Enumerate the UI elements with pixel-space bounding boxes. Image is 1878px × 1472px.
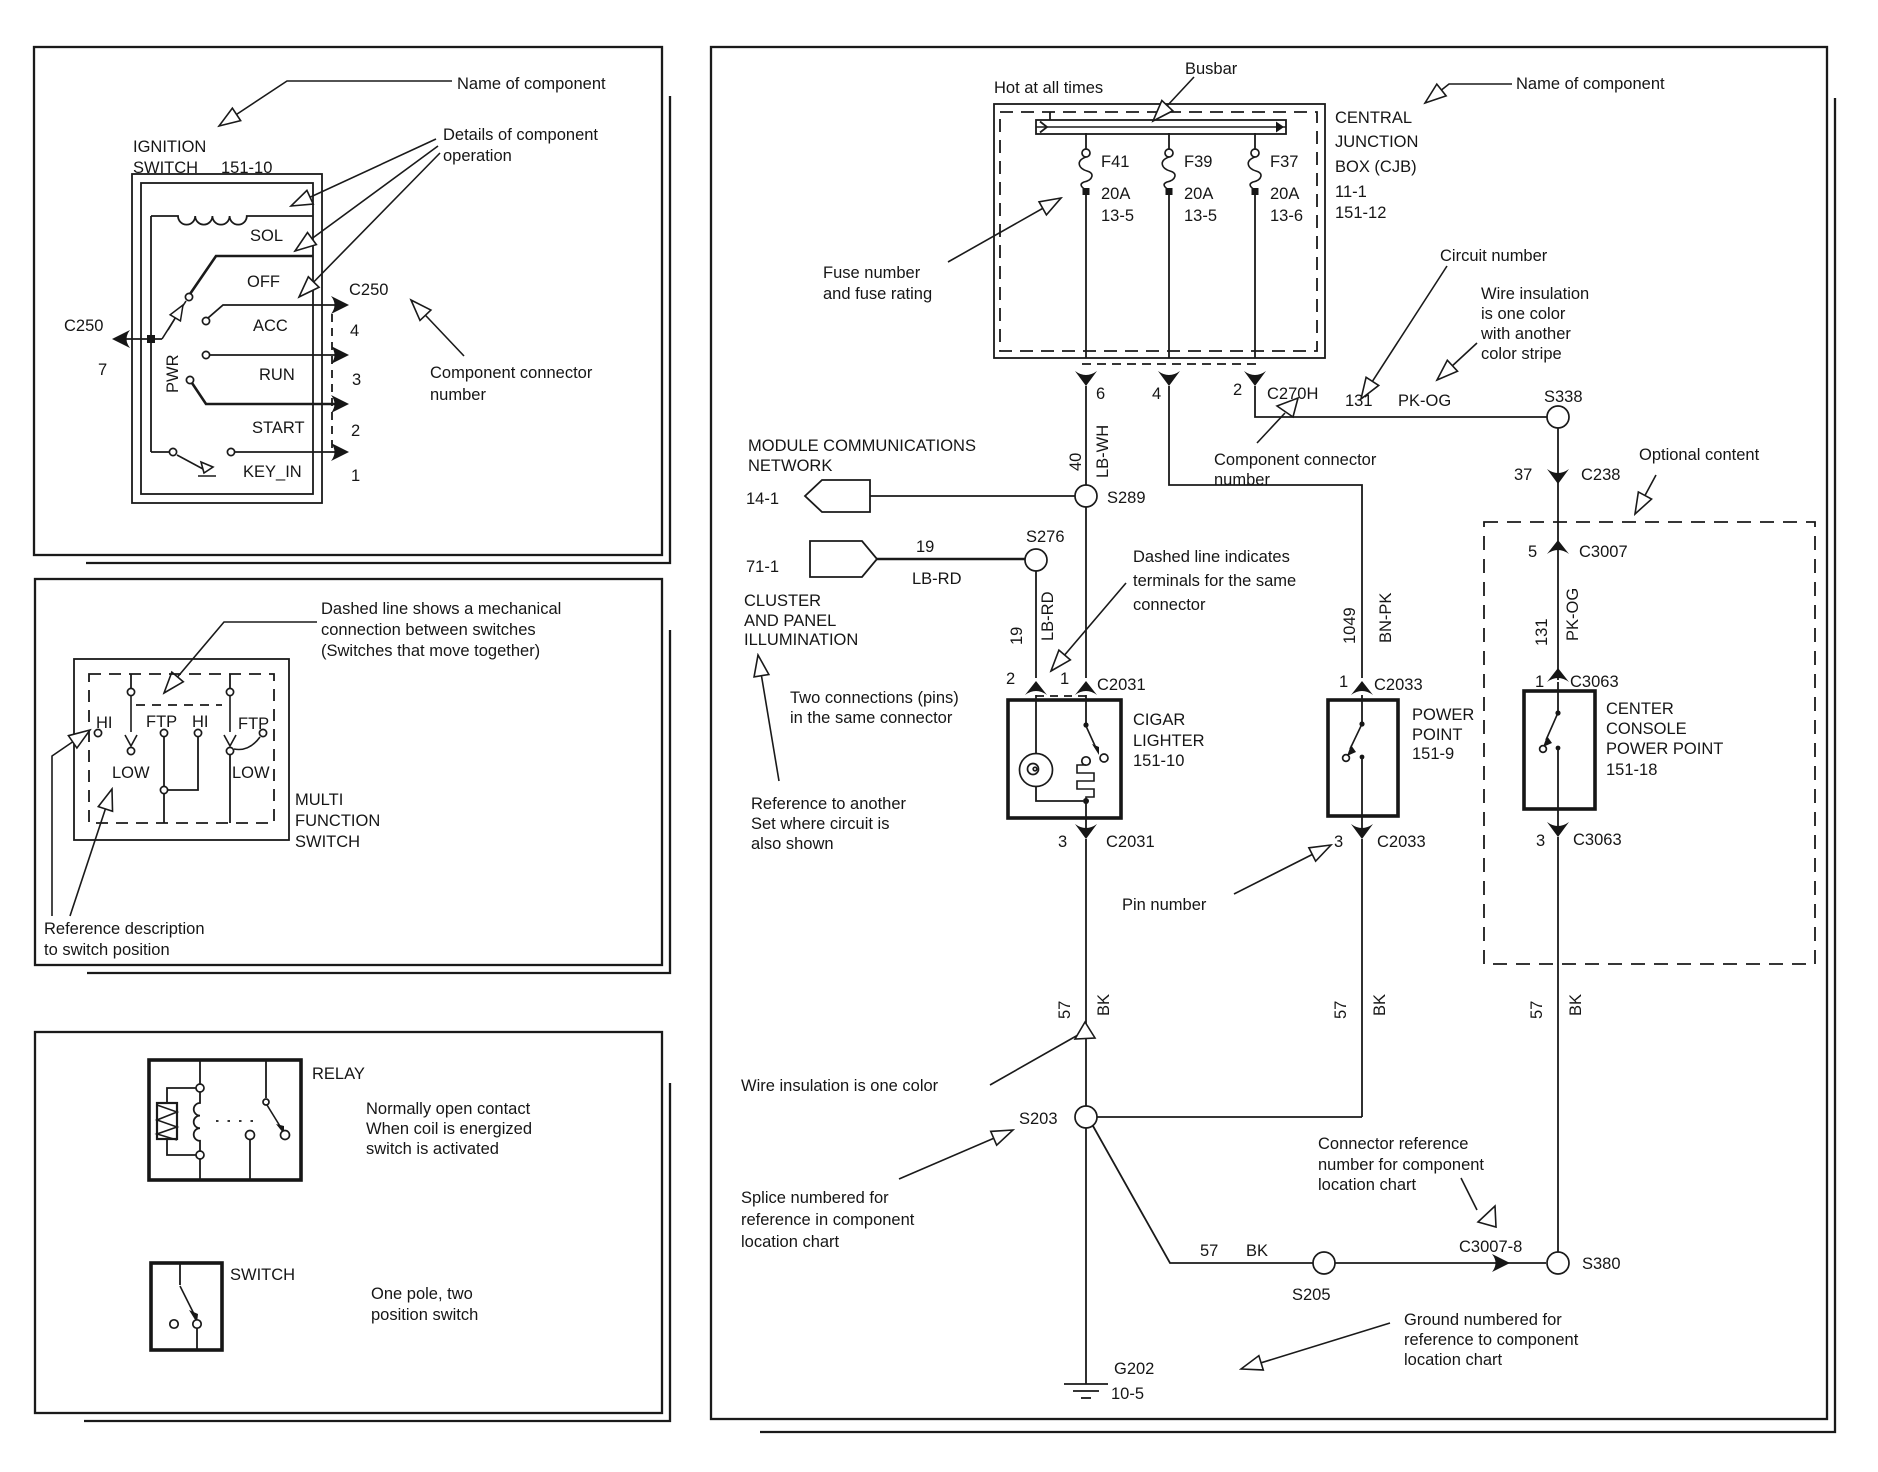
heater element top contact xyxy=(1082,757,1090,765)
arrow C3007 in xyxy=(1547,540,1569,554)
svg-text:When coil is energized: When coil is energized xyxy=(366,1120,532,1138)
svg-text:POWER: POWER xyxy=(1412,706,1474,724)
svg-text:Two connections (pins): Two connections (pins) xyxy=(790,689,959,707)
relay coil wire top xyxy=(199,1060,201,1084)
wire S203 diagonal to S205 xyxy=(1093,1126,1313,1263)
svg-text:10-5: 10-5 xyxy=(1111,1385,1144,1403)
annotation: Reference to another Set xyxy=(751,795,907,853)
svg-text:PWR: PWR xyxy=(164,354,182,393)
svg-text:FTP: FTP xyxy=(238,715,269,733)
arm arrowhead xyxy=(168,305,183,330)
off-page connector 71-1 xyxy=(810,541,877,577)
contact left pole xyxy=(127,688,134,695)
svg-text:1049: 1049 xyxy=(1341,607,1359,644)
label G202 10-5 xyxy=(1111,1360,1154,1403)
relay K1 box xyxy=(149,1060,301,1180)
wire KEY_IN row xyxy=(235,451,335,453)
wire pin2 into lamp xyxy=(1035,695,1037,754)
wire to S289 xyxy=(870,495,1075,497)
svg-text:71-1: 71-1 xyxy=(746,558,779,576)
svg-text:3: 3 xyxy=(352,371,361,389)
wire START row xyxy=(192,383,335,404)
svg-text:with another: with another xyxy=(1480,325,1571,343)
svg-text:CIGAR: CIGAR xyxy=(1133,711,1185,729)
splice S289 xyxy=(1075,485,1097,507)
svg-text:1: 1 xyxy=(1060,670,1069,688)
contact FTP right xyxy=(259,729,266,736)
annotation: Ground numbered xyxy=(1404,1311,1579,1369)
svg-text:Optional content: Optional content xyxy=(1639,446,1760,464)
svg-text:Component connector: Component connector xyxy=(1214,451,1377,469)
arrow C3063 pin1 in xyxy=(1547,668,1569,682)
annotation: dashed line mechanical connection xyxy=(321,600,561,660)
svg-text:57: 57 xyxy=(1332,1001,1350,1019)
svg-text:Reference description: Reference description xyxy=(44,920,205,938)
svg-text:position switch: position switch xyxy=(371,1306,478,1324)
switch pivot wire xyxy=(179,1263,181,1285)
arrow RUN pin3 xyxy=(331,346,349,364)
svg-text:LB-RD: LB-RD xyxy=(912,570,962,588)
wire circuit 57 BK (cc power point to S380) xyxy=(1557,837,1559,1252)
svg-text:LB-RD: LB-RD xyxy=(1039,591,1057,641)
svg-text:C3063: C3063 xyxy=(1573,831,1622,849)
wire right lower down xyxy=(229,755,231,823)
contact HI left xyxy=(94,729,101,736)
switch bottom wire xyxy=(196,1328,198,1350)
svg-text:also shown: also shown xyxy=(751,835,834,853)
leader arrow to LOW xyxy=(70,789,112,916)
svg-text:151-18: 151-18 xyxy=(1606,761,1657,779)
panel shadow right xyxy=(760,98,1835,1432)
annotation: Component connector number (right) xyxy=(1214,451,1377,489)
svg-text:13-5: 13-5 xyxy=(1184,207,1217,225)
leader arrow to dashed terminals xyxy=(1051,583,1126,671)
svg-text:START: START xyxy=(252,419,305,437)
svg-text:location chart: location chart xyxy=(741,1233,840,1251)
off-page connector 14-1 xyxy=(805,480,870,512)
label CENTRAL JUNCTION BOX (CJB) 11-1 151-12 xyxy=(1335,109,1418,222)
svg-text:S276: S276 xyxy=(1026,528,1065,546)
svg-text:BK: BK xyxy=(1095,994,1113,1016)
svg-text:C2031: C2031 xyxy=(1097,676,1146,694)
svg-text:57: 57 xyxy=(1056,1001,1074,1019)
dashed same-connector line C2031 xyxy=(1036,695,1086,697)
leader arrow to 71-1 reference xyxy=(758,655,779,781)
wire KEY_IN stub xyxy=(151,451,169,453)
svg-text:to switch position: to switch position xyxy=(44,941,170,959)
annotation: Details of component operation xyxy=(443,126,598,165)
svg-text:19: 19 xyxy=(1008,627,1026,645)
svg-text:BK: BK xyxy=(1371,994,1389,1016)
svg-text:Dashed line indicates: Dashed line indicates xyxy=(1133,548,1290,566)
svg-text:131: 131 xyxy=(1345,392,1373,410)
label F37 20A 13-6 xyxy=(1270,153,1303,225)
svg-text:7: 7 xyxy=(98,361,107,379)
cc power point arm xyxy=(1546,715,1557,740)
leader arrow optional content xyxy=(1635,475,1656,514)
leader arrow wire insulation stripe xyxy=(1437,343,1477,380)
wire to pin3 xyxy=(1085,801,1087,836)
relay switch arm xyxy=(267,1105,284,1134)
annotation: Component connector number xyxy=(430,364,593,404)
svg-text:3: 3 xyxy=(1334,833,1343,851)
mechanical link dashed xyxy=(136,704,222,706)
leader arrow detail 3 xyxy=(299,153,440,297)
svg-text:S205: S205 xyxy=(1292,1286,1331,1304)
arrow pin2 out xyxy=(1244,371,1266,386)
wire pin1 into cc power point xyxy=(1557,682,1559,712)
contact KEY_IN fixed xyxy=(227,448,234,455)
switch S2 box xyxy=(151,1263,222,1350)
label MULTI FUNCTION SWITCH xyxy=(295,791,380,851)
cc power point pivot xyxy=(1555,710,1560,715)
cigar switch arm xyxy=(1086,726,1096,748)
svg-text:3: 3 xyxy=(1536,832,1545,850)
svg-text:LIGHTER: LIGHTER xyxy=(1133,732,1205,750)
svg-text:Name of component: Name of component xyxy=(457,75,606,93)
leader arrow ground xyxy=(1241,1323,1390,1369)
splice S338 xyxy=(1547,406,1569,428)
svg-text:BK: BK xyxy=(1246,1242,1268,1260)
power point arm tip xyxy=(1347,745,1356,756)
annotation switch type xyxy=(371,1285,478,1324)
annotation: Connector reference number xyxy=(1318,1135,1484,1194)
annotation: Dashed line indicates terminals xyxy=(1133,548,1296,614)
svg-text:POWER POINT: POWER POINT xyxy=(1606,740,1723,758)
svg-text:KEY_IN: KEY_IN xyxy=(243,463,302,481)
svg-text:in the same connector: in the same connector xyxy=(790,709,953,727)
annotation: reference description xyxy=(44,920,205,959)
contact KEY_IN pivot xyxy=(169,448,176,455)
svg-text:PK-OG: PK-OG xyxy=(1398,392,1451,410)
fuse F39 xyxy=(1162,133,1175,358)
svg-text:C250: C250 xyxy=(64,317,103,335)
svg-text:LOW: LOW xyxy=(112,764,150,782)
svg-text:20A: 20A xyxy=(1184,185,1213,203)
svg-text:Details of component: Details of component xyxy=(443,126,598,144)
wire S205 to S380 xyxy=(1335,1262,1546,1264)
leader arrow splice S203 xyxy=(899,1130,1013,1179)
svg-text:1: 1 xyxy=(351,467,360,485)
svg-text:4: 4 xyxy=(1152,385,1161,403)
label CLUSTER AND PANEL ILLUMINATION xyxy=(744,592,858,649)
cc power point arm tip xyxy=(1543,736,1552,747)
arrow C3063 pin3 out xyxy=(1547,822,1569,837)
label CENTER CONSOLE POWER POINT 151-18 xyxy=(1606,700,1723,779)
svg-text:color stripe: color stripe xyxy=(1481,345,1562,363)
switch contact right xyxy=(193,1320,201,1328)
panel shadow box1 xyxy=(86,96,670,563)
arm arrow left xyxy=(125,735,137,746)
svg-text:151-9: 151-9 xyxy=(1412,745,1454,763)
wire FTP left down xyxy=(163,737,165,786)
svg-text:operation: operation xyxy=(443,147,512,165)
svg-text:Reference to another: Reference to another xyxy=(751,795,907,813)
wire right pole stub xyxy=(229,674,231,689)
contact right pole xyxy=(226,688,233,695)
svg-text:CENTER: CENTER xyxy=(1606,700,1674,718)
svg-text:5: 5 xyxy=(1528,543,1537,561)
ignition switch U1 inner box xyxy=(141,183,313,494)
wire circuit 131 PK-OG (F37 to S338) xyxy=(1255,386,1547,417)
annotation: Wire insulation two colors xyxy=(1480,285,1589,363)
wire circuit 57 BK (cigar lighter to S203) xyxy=(1085,839,1087,1106)
svg-text:BN-PK: BN-PK xyxy=(1377,593,1395,643)
svg-text:F39: F39 xyxy=(1184,153,1212,171)
wire S276 down to C2031 pin2 xyxy=(1035,571,1037,678)
svg-text:C3007-8: C3007-8 xyxy=(1459,1238,1522,1256)
svg-text:connection between switches: connection between switches xyxy=(321,621,536,639)
contact FTP left xyxy=(160,729,167,736)
svg-text:Connector reference: Connector reference xyxy=(1318,1135,1468,1153)
relay switch arm tip xyxy=(281,1131,290,1140)
switch arm KEY_IN xyxy=(177,455,203,469)
svg-text:Dashed line shows a mechanical: Dashed line shows a mechanical xyxy=(321,600,561,618)
leader arrow pin number xyxy=(1234,845,1331,894)
panel frame box3 xyxy=(35,1032,662,1413)
svg-text:40: 40 xyxy=(1067,453,1085,471)
svg-text:PK-OG: PK-OG xyxy=(1564,588,1582,641)
multifunction switch dashed body xyxy=(89,674,274,823)
splice S205 xyxy=(1313,1252,1335,1274)
svg-text:connector: connector xyxy=(1133,596,1206,614)
svg-text:Normally open contact: Normally open contact xyxy=(366,1100,531,1118)
leader arrow connector reference xyxy=(1461,1178,1496,1227)
panel frame box2 xyxy=(35,579,662,965)
multifunction switch S1 outer box xyxy=(74,659,289,840)
svg-text:G202: G202 xyxy=(1114,1360,1154,1378)
svg-text:BK: BK xyxy=(1567,994,1585,1016)
splice S203 xyxy=(1075,1106,1097,1128)
label POWER POINT 151-9 xyxy=(1412,706,1474,763)
svg-text:number: number xyxy=(1214,471,1270,489)
svg-text:LOW: LOW xyxy=(232,764,270,782)
svg-text:AND PANEL: AND PANEL xyxy=(744,612,836,630)
wire PWR bus vertical xyxy=(150,216,152,452)
svg-text:SWITCH: SWITCH xyxy=(295,833,360,851)
wire C250 pin7 feed xyxy=(118,338,162,340)
svg-text:131: 131 xyxy=(1533,618,1551,646)
svg-text:Ground numbered for: Ground numbered for xyxy=(1404,1311,1562,1329)
junction FTP left xyxy=(160,786,167,793)
svg-text:CLUSTER: CLUSTER xyxy=(744,592,821,610)
leader arrow component connector xyxy=(1257,398,1298,443)
wire ACC row xyxy=(208,305,335,318)
svg-text:20A: 20A xyxy=(1101,185,1130,203)
svg-text:19: 19 xyxy=(916,538,934,556)
arrow C238 xyxy=(1547,469,1569,484)
svg-text:C2031: C2031 xyxy=(1106,833,1155,851)
wire S338 down xyxy=(1557,428,1559,680)
svg-text:151-12: 151-12 xyxy=(1335,204,1386,222)
switch arm PWR xyxy=(162,301,186,339)
arrow C250 pin7 (left) xyxy=(112,330,130,348)
svg-text:2: 2 xyxy=(351,422,360,440)
svg-text:Name of component: Name of component xyxy=(1516,75,1665,93)
power point open contact xyxy=(1343,755,1350,762)
svg-text:JUNCTION: JUNCTION xyxy=(1335,133,1418,151)
svg-text:C238: C238 xyxy=(1581,466,1620,484)
svg-text:14-1: 14-1 xyxy=(746,490,779,508)
label IGNITION SWITCH 151-10 xyxy=(133,138,272,177)
arrow C3007-8 xyxy=(1492,1254,1510,1272)
fuse F37 xyxy=(1248,133,1261,358)
label MODULE COMMUNICATIONS NETWORK xyxy=(748,437,976,475)
leader arrow fuse xyxy=(948,198,1061,262)
arrow C2031 pin1 in xyxy=(1075,681,1097,695)
wire S203 to ground xyxy=(1085,1128,1087,1384)
svg-text:C2033: C2033 xyxy=(1374,676,1423,694)
svg-text:C250: C250 xyxy=(349,281,388,299)
wire circuit 57 BK (power point to S203 link) xyxy=(1361,839,1363,1117)
resistor R body xyxy=(157,1103,177,1140)
heater element xyxy=(1077,765,1094,801)
svg-text:is one color: is one color xyxy=(1481,305,1566,323)
svg-text:151-10: 151-10 xyxy=(1133,752,1184,770)
svg-text:HI: HI xyxy=(192,713,209,731)
svg-text:Wire insulation: Wire insulation xyxy=(1481,285,1589,303)
leader arrow connector number xyxy=(411,300,464,356)
svg-text:FTP: FTP xyxy=(146,713,177,731)
svg-text:4: 4 xyxy=(350,322,359,340)
CJB outer box xyxy=(994,104,1325,358)
svg-text:number: number xyxy=(430,386,486,404)
arrow pin4 out xyxy=(1158,371,1180,386)
ignition switch U1 outer box xyxy=(132,174,322,503)
switch arm arrowtip xyxy=(189,1310,198,1323)
svg-text:(Switches that move together): (Switches that move together) xyxy=(321,642,540,660)
svg-text:MULTI: MULTI xyxy=(295,791,343,809)
leader arrow detail 2 xyxy=(295,146,438,251)
svg-text:reference in component: reference in component xyxy=(741,1211,915,1229)
label F39 20A 13-5 xyxy=(1184,153,1217,225)
arrow KEY_IN pin1 xyxy=(331,443,349,461)
svg-text:terminals for the same: terminals for the same xyxy=(1133,572,1296,590)
switch contact left xyxy=(170,1320,178,1328)
busbar xyxy=(1036,112,1286,134)
cigar lighter lamp xyxy=(1020,754,1053,787)
arrow C2033 pin1 in xyxy=(1351,681,1373,695)
svg-text:Circuit number: Circuit number xyxy=(1440,247,1548,265)
svg-text:IGNITION: IGNITION xyxy=(133,138,206,156)
cigar switch arm tip xyxy=(1092,744,1108,762)
relay fixed contact xyxy=(246,1131,255,1140)
panel frame right xyxy=(711,47,1827,1419)
switch arm xyxy=(180,1286,196,1318)
svg-text:SWITCH: SWITCH xyxy=(230,1266,295,1284)
power point box xyxy=(1328,700,1398,816)
leader arrow circuit number xyxy=(1361,266,1447,399)
svg-text:CONSOLE: CONSOLE xyxy=(1606,720,1687,738)
svg-text:Component connector: Component connector xyxy=(430,364,593,382)
dashed connector line C270H xyxy=(1082,363,1256,365)
cc power point fixed contact xyxy=(1556,746,1561,751)
relay fixed contact wire xyxy=(249,1140,251,1180)
svg-text:and fuse rating: and fuse rating xyxy=(823,285,932,303)
svg-text:Splice numbered for: Splice numbered for xyxy=(741,1189,889,1207)
annotation: Fuse number and fuse rating xyxy=(823,264,932,303)
contact OFF xyxy=(185,293,192,300)
wire circuit 19 LB-RD to S276 xyxy=(877,558,1025,561)
wire junction to HI2 xyxy=(168,737,198,790)
cc power point open contact xyxy=(1540,746,1547,753)
leader arrow to HI xyxy=(52,730,90,916)
svg-text:13-5: 13-5 xyxy=(1101,207,1134,225)
svg-text:S380: S380 xyxy=(1582,1255,1621,1273)
relay switch pivot wire xyxy=(265,1060,267,1098)
panel shadow box3 xyxy=(84,1083,670,1421)
arrow START pin2 xyxy=(331,395,349,413)
CJB dashed box xyxy=(1000,112,1317,351)
svg-text:POINT: POINT xyxy=(1412,726,1462,744)
svg-text:13-6: 13-6 xyxy=(1270,207,1303,225)
wire OFF row xyxy=(190,256,313,294)
leader arrow busbar xyxy=(1153,77,1194,121)
power point pivot xyxy=(1359,721,1364,726)
curved wire to FTP right xyxy=(234,737,260,750)
relay coil wire bottom xyxy=(199,1159,201,1180)
svg-text:2: 2 xyxy=(1006,670,1015,688)
svg-text:Wire insulation is one color: Wire insulation is one color xyxy=(741,1077,939,1095)
contact ACC xyxy=(202,317,209,324)
leader arrow to component name xyxy=(219,81,452,126)
junction relay top xyxy=(196,1084,204,1092)
cigar switch pivot xyxy=(1083,722,1088,727)
svg-text:NETWORK: NETWORK xyxy=(748,457,832,475)
label F41 20A 13-5 xyxy=(1101,153,1134,225)
svg-text:Pin number: Pin number xyxy=(1122,896,1207,914)
annotation: Splice numbered xyxy=(741,1189,915,1251)
optional content dashed box xyxy=(1484,522,1815,964)
svg-text:F37: F37 xyxy=(1270,153,1298,171)
contact left lower xyxy=(127,747,134,754)
arrow pin6 out xyxy=(1075,371,1097,386)
svg-text:C3063: C3063 xyxy=(1570,673,1619,691)
svg-text:location chart: location chart xyxy=(1318,1176,1417,1194)
leader arrow detail 1 xyxy=(291,139,436,206)
resistor R (parallel) wires xyxy=(167,1088,196,1155)
svg-text:C2033: C2033 xyxy=(1377,833,1426,851)
svg-text:location chart: location chart xyxy=(1404,1351,1503,1369)
annotation: Two connections (pins) xyxy=(790,689,959,727)
switch arm left (movable) xyxy=(130,696,132,732)
wire circuit 1049 BN-PK (F39 to power point) xyxy=(1169,386,1362,678)
svg-text:CENTRAL: CENTRAL xyxy=(1335,109,1412,127)
svg-text:switch is activated: switch is activated xyxy=(366,1140,499,1158)
panel frame box1 xyxy=(34,47,662,555)
svg-text:reference to component: reference to component xyxy=(1404,1331,1579,1349)
svg-text:BOX (CJB): BOX (CJB) xyxy=(1335,158,1417,176)
cigar lighter box xyxy=(1008,700,1121,818)
arrow C2033 pin3 out xyxy=(1351,824,1373,839)
svg-text:57: 57 xyxy=(1528,1001,1546,1019)
wire lamp to element xyxy=(1036,786,1083,801)
svg-text:RUN: RUN xyxy=(259,366,295,384)
wire RUN row xyxy=(210,354,335,356)
relay coil xyxy=(194,1092,200,1151)
svg-text:F41: F41 xyxy=(1101,153,1129,171)
svg-text:11-1: 11-1 xyxy=(1335,183,1367,201)
svg-text:MODULE COMMUNICATIONS: MODULE COMMUNICATIONS xyxy=(748,437,976,455)
svg-text:SOL: SOL xyxy=(250,227,283,245)
wire junction to bottom xyxy=(163,794,165,823)
solenoid coil SOL xyxy=(151,216,313,225)
arrow C2031 pin3 out xyxy=(1075,824,1097,839)
svg-text:2: 2 xyxy=(1233,381,1242,399)
wire S203 to power point branch xyxy=(1097,1116,1362,1118)
relay mechanical dotted link xyxy=(216,1120,260,1122)
junction PWR node xyxy=(147,335,155,343)
